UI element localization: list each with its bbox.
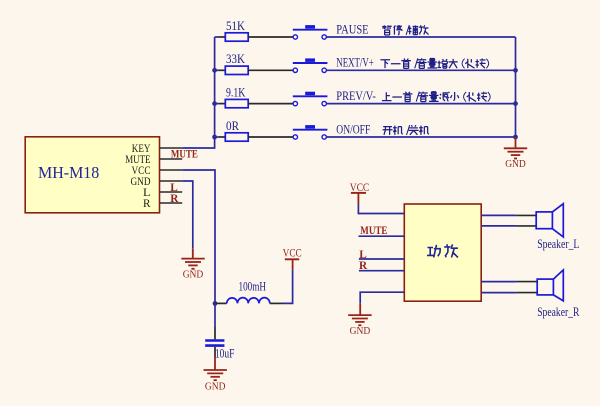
svg-text:10uF: 10uF xyxy=(215,346,235,360)
svg-text:51K: 51K xyxy=(226,19,245,33)
svg-text:Speaker_L: Speaker_L xyxy=(537,237,579,251)
svg-text:ON/OFF: ON/OFF xyxy=(336,122,370,136)
svg-text:MUTE: MUTE xyxy=(360,225,387,237)
svg-text:9.1K: 9.1K xyxy=(226,85,245,99)
svg-text:VCC: VCC xyxy=(350,180,370,194)
svg-text:33K: 33K xyxy=(226,52,245,66)
svg-text:NEXT/V+: NEXT/V+ xyxy=(336,56,374,70)
svg-text:PAUSE: PAUSE xyxy=(336,22,369,36)
svg-text:PREV/V-: PREV/V- xyxy=(336,89,376,103)
svg-text:MH-M18: MH-M18 xyxy=(38,163,99,182)
svg-text:Speaker_R: Speaker_R xyxy=(537,305,580,319)
svg-text:GND: GND xyxy=(350,326,371,337)
svg-text:0R: 0R xyxy=(226,119,240,133)
svg-text:GND: GND xyxy=(505,159,526,170)
svg-text:GND: GND xyxy=(183,269,204,280)
svg-text:100mH: 100mH xyxy=(239,280,267,294)
svg-text:R: R xyxy=(170,193,179,205)
svg-text:R: R xyxy=(143,196,151,210)
svg-text:GND: GND xyxy=(205,382,226,393)
svg-text:MUTE: MUTE xyxy=(171,148,198,160)
svg-text:VCC: VCC xyxy=(283,246,302,260)
